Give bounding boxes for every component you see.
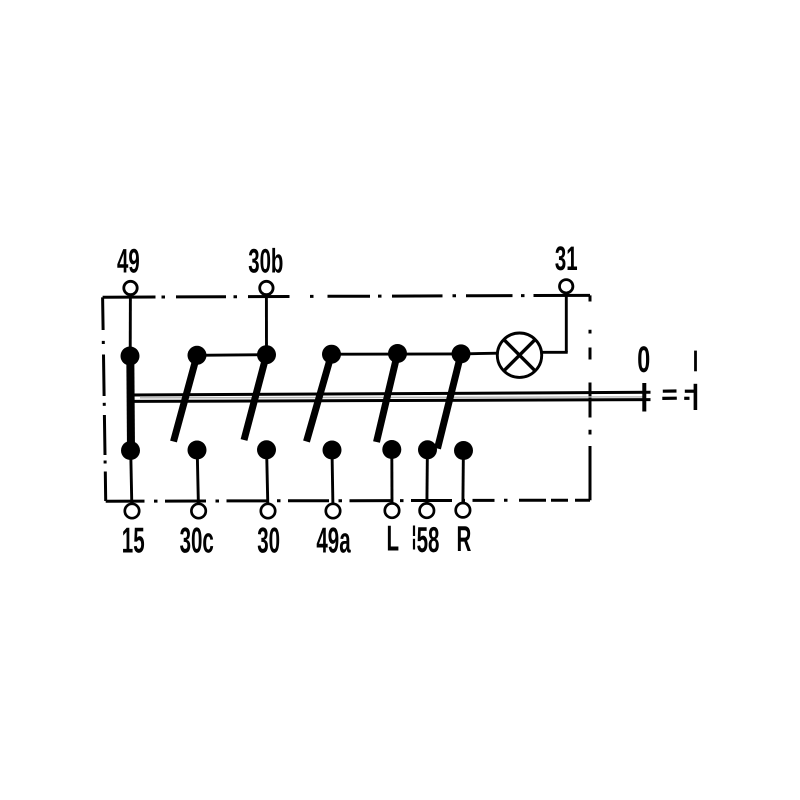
svg-text:30: 30 — [257, 520, 280, 561]
svg-text:30c: 30c — [180, 520, 214, 561]
svg-text:49: 49 — [117, 242, 140, 280]
svg-text:31: 31 — [555, 240, 578, 278]
svg-text:58: 58 — [417, 519, 440, 560]
svg-text:49a: 49a — [316, 520, 351, 561]
svg-text:15: 15 — [122, 520, 145, 561]
svg-text:0: 0 — [637, 339, 650, 380]
svg-text:L: L — [387, 518, 400, 559]
svg-text:30b: 30b — [248, 242, 283, 280]
svg-text:R: R — [456, 518, 471, 559]
